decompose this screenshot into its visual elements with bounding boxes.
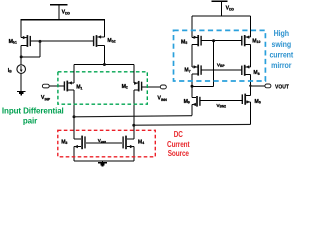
svg-text:M6: M6 (255, 99, 261, 105)
svg-text:M7: M7 (184, 68, 190, 74)
svg-text:current: current (269, 50, 293, 60)
svg-text:M8: M8 (253, 70, 259, 76)
svg-text:M1: M1 (76, 85, 82, 91)
svg-text:M4: M4 (138, 140, 144, 146)
svg-text:VDD: VDD (62, 10, 71, 16)
svg-text:VOUT: VOUT (275, 84, 290, 90)
svg-text:pair: pair (23, 116, 37, 125)
svg-text:High: High (274, 29, 290, 39)
svg-text:Source: Source (168, 148, 189, 158)
svg-text:VBN1: VBN1 (98, 138, 107, 144)
svg-text:VBN2: VBN2 (216, 103, 226, 109)
svg-text:DC: DC (174, 129, 184, 139)
svg-text:M10: M10 (252, 38, 260, 44)
svg-text:M5: M5 (181, 39, 187, 45)
svg-text:mirror: mirror (271, 61, 291, 71)
svg-text:IB: IB (8, 68, 12, 74)
svg-text:Mb1: Mb1 (9, 39, 17, 45)
svg-text:VDD: VDD (226, 6, 235, 12)
svg-text:swing: swing (272, 39, 292, 49)
svg-text:M3: M3 (61, 140, 67, 146)
svg-text:Mb2: Mb2 (107, 38, 115, 44)
svg-text:Input Differential: Input Differential (2, 106, 64, 115)
svg-text:VBP: VBP (217, 62, 226, 68)
svg-text:M2: M2 (122, 84, 128, 90)
svg-text:M9: M9 (184, 99, 190, 105)
